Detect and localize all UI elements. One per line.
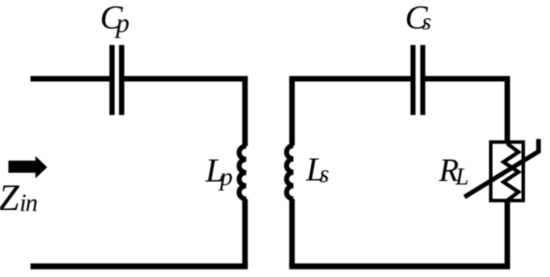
wire: right loop top wire right segment + right vertical upper [424, 79, 507, 142]
arrow Zin input [8, 156, 47, 178]
wire: left loop right vertical lower + bottom wire [242, 199, 248, 266]
svg-text:Z: Z [0, 178, 20, 219]
inductor L2 (Ls) coil [287, 146, 294, 200]
wire: right loop bottom wire [289, 263, 510, 269]
resistor RL box [491, 142, 524, 201]
capacitor C1 (Cp) plates [109, 45, 114, 115]
resistor RL variable diagonal arrow [465, 139, 539, 197]
wire: right loop left vertical top + top wire left segment [292, 79, 411, 146]
svg-text:in: in [20, 190, 38, 217]
wire: left loop top wire, left segment [31, 76, 110, 82]
svg-text:p: p [114, 8, 130, 38]
resistor RL zigzag [504, 144, 519, 202]
capacitor C2 (Cs) plates [411, 45, 416, 115]
inductor L1 (Lp) coil [239, 146, 246, 199]
svg-text:p: p [218, 162, 233, 191]
svg-text:s: s [422, 9, 431, 35]
wire: right loop left vertical lower [289, 199, 295, 266]
wire: left loop top wire right segment + right vertical [124, 79, 245, 146]
svg-text:s: s [320, 161, 330, 188]
svg-text:L: L [455, 165, 469, 191]
wire: right loop right vertical lower [505, 201, 511, 269]
